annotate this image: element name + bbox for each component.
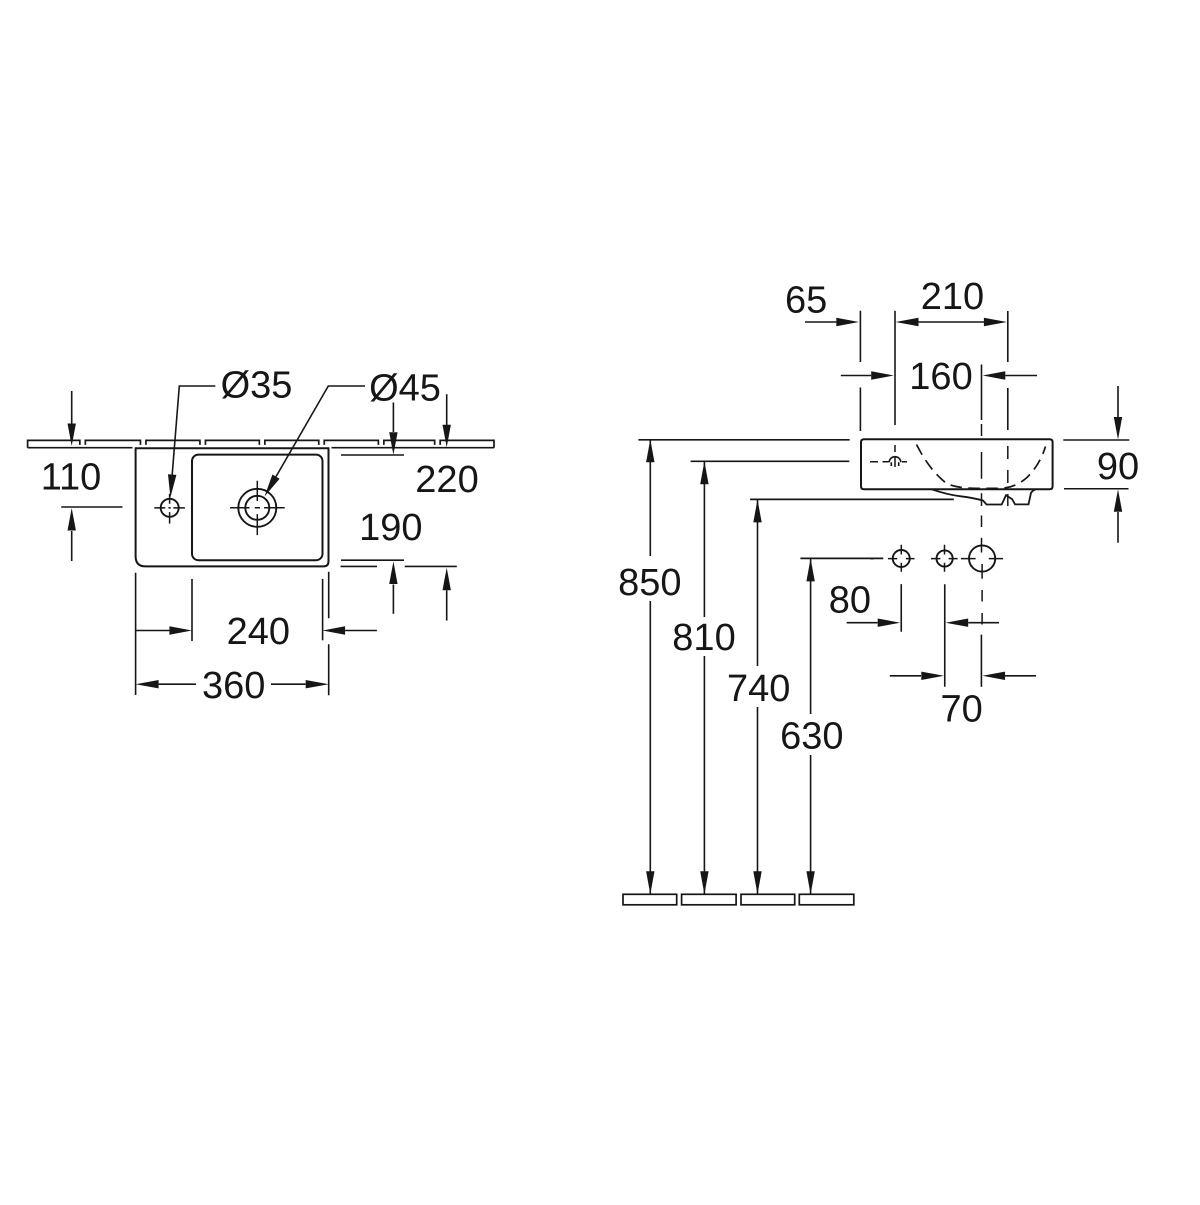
fixing hole left circle (893, 550, 910, 567)
wall line (tiled wall edge, segmented top line with end hooks) (28, 440, 494, 447)
fixing hole right crosshairs (931, 545, 958, 572)
leader arrow Ø45 (265, 475, 280, 497)
dim 90 top arrow (1117, 386, 1119, 417)
svg-text:810: 810 (672, 617, 735, 659)
basin right extension line (328, 572, 330, 695)
fixing hole left vertical dashes below (900, 584, 902, 600)
bowl right extension line (322, 579, 324, 640)
floor tile 3 (741, 894, 795, 905)
dim 740 vertical line (757, 499, 759, 894)
svg-text:850: 850 (618, 562, 681, 604)
drain hole crosshair horizontal (961, 558, 1003, 560)
svg-text:190: 190 (359, 507, 422, 549)
line C hidden continuation (dashed) (1007, 446, 1009, 506)
drain hole Ø45 outer (238, 489, 276, 527)
dim 70 left arrow (890, 675, 921, 677)
drain centerlines (230, 481, 285, 535)
basin left extension line (135, 573, 137, 695)
dim 360 left arrow (159, 683, 196, 685)
dim 630 vertical line (810, 558, 812, 894)
dim 70 right arrow (1005, 675, 1036, 677)
leader line for Ø35 (172, 386, 215, 475)
dim 810 vertical line (703, 461, 705, 894)
drain axis extension for dim 70 (980, 635, 982, 687)
basin body outline (elevation) (861, 439, 1053, 489)
inner bowl outline (top view) (192, 455, 323, 561)
floor tile 2 (682, 894, 737, 905)
wall face bottom line (28, 447, 494, 449)
svg-text:360: 360 (202, 665, 265, 707)
fixing hole left crosshairs (870, 545, 915, 572)
drain axis dashes through basin (981, 424, 983, 553)
dim 190 bottom arrow (392, 585, 394, 614)
drain axis dashes below circle (981, 564, 983, 625)
dim 220 top arrow (446, 394, 448, 425)
bowl left extension line (191, 579, 193, 641)
svg-text:90: 90 (1097, 446, 1139, 488)
dim 80 right arrow (968, 622, 999, 624)
svg-text:65: 65 (785, 280, 827, 322)
svg-text:Ø45: Ø45 (369, 367, 441, 409)
drain hole circle (elevation) (969, 545, 995, 571)
svg-text:Ø35: Ø35 (221, 365, 293, 407)
dim 220 bottom arrow (446, 590, 448, 620)
svg-text:740: 740 (727, 668, 790, 710)
faucet hole detail (elevation) (889, 457, 901, 466)
basin underside and drain fitting outline (932, 489, 1036, 504)
basin bottom extension line (341, 565, 457, 567)
dim 850 vertical line (649, 439, 651, 894)
faucet hole centerline horizontal (dashed) (870, 461, 907, 463)
ref line 630 (fixing holes level) (800, 557, 883, 559)
dim 110 top arrow (71, 391, 73, 424)
leader line for Ø45 (276, 386, 365, 477)
dim 110 bottom arrow (71, 531, 73, 561)
fixing hole right circle (937, 550, 953, 566)
faucet hole centerline vertical in basin (dashed) (894, 445, 896, 467)
drain axis line D (981, 365, 983, 421)
svg-text:630: 630 (780, 716, 843, 758)
dim 190 top arrow (392, 403, 394, 433)
ref line 740 (drain outlet level) (750, 498, 954, 500)
extension line C (210 boundary) (1007, 311, 1009, 430)
dim 65 arrow (805, 321, 836, 323)
faucet hole Ø35 (161, 499, 179, 517)
svg-text:70: 70 (941, 689, 983, 731)
hidden bowl outline (dashed) (917, 445, 1046, 489)
dim 90 top extension (1063, 439, 1129, 441)
dim 210 line and arrows (918, 321, 984, 323)
svg-text:80: 80 (829, 580, 871, 622)
wall plane extension line A (859, 311, 861, 431)
svg-text:210: 210 (921, 276, 984, 318)
svg-text:240: 240 (227, 611, 290, 653)
dim 110 extension line at hole axis (61, 506, 122, 508)
faucet hole centerlines (154, 494, 185, 524)
dim 80 left arrow (847, 622, 878, 624)
dim 240 left arrow (136, 630, 170, 632)
svg-text:220: 220 (415, 459, 478, 501)
floor tile 4 (799, 894, 854, 905)
dim 90 bottom extension (1064, 488, 1129, 490)
ref line 810 (faucet hole level) (691, 460, 850, 462)
bowl bottom extension line (341, 559, 404, 561)
faucet axis extension line B (894, 311, 896, 425)
dim 360 right arrow (271, 683, 306, 685)
dim 160 left arrow (841, 375, 871, 377)
ref line 850 (basin rim level) (638, 439, 849, 441)
dim 90 bottom arrow (1117, 512, 1119, 543)
dim 240 right arrow (345, 630, 377, 632)
leader arrow Ø35 (168, 474, 176, 497)
drain hole inner (245, 496, 269, 520)
bowl top extension line (341, 454, 404, 456)
fixing hole extension lines (901, 584, 945, 687)
svg-text:110: 110 (41, 457, 102, 499)
svg-text:160: 160 (909, 356, 972, 398)
basin outer outline (top view) (136, 448, 329, 566)
floor tile 1 (623, 894, 677, 905)
dim 160 right arrow (1005, 375, 1037, 377)
